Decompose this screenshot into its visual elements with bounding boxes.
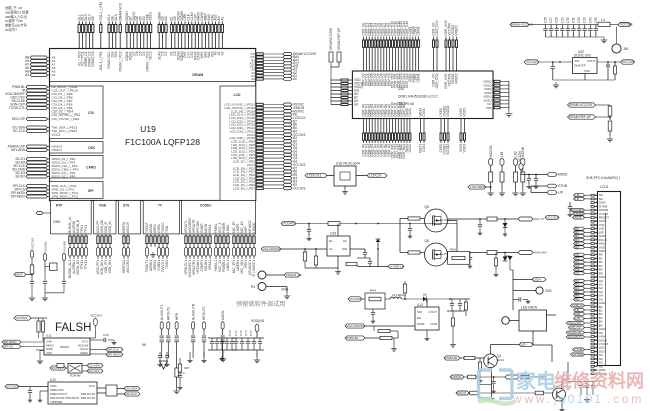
svg-text:DDR1 K4H511638J-LCCC: DDR1 K4H511638J-LCCC <box>398 95 438 99</box>
label DRAM-REF-AP <box>568 115 596 119</box>
svg-text:F1C100A LQFP128: F1C100A LQFP128 <box>125 137 200 147</box>
current sense box with R44 <box>365 293 385 309</box>
U19 right pin LCD G2 <box>256 160 263 162</box>
svg-text:DC/DC-3V3: DC/DC-3V3 <box>574 54 591 58</box>
U20 left pin 3 <box>331 86 352 88</box>
capacitor C40 at regulator input <box>552 62 554 66</box>
svg-text:HOSC1: HOSC1 <box>52 148 63 152</box>
label AUDION <box>450 375 464 379</box>
U19 left pin ADAKA-O/P <box>26 145 48 148</box>
capacitor C77 <box>166 352 168 355</box>
svg-text:PWM-BL: PWM-BL <box>347 336 359 340</box>
U19 bottom pin TVOUT <box>146 234 148 236</box>
svg-text:VDDQ2: VDDQ2 <box>446 105 450 116</box>
svg-text:WDDR#: WDDR# <box>489 145 493 157</box>
svg-text:VDD: VDD <box>545 289 552 293</box>
capacitor C64 <box>535 175 537 179</box>
label R3 to LCD1 <box>574 290 585 293</box>
svg-text:C35: C35 <box>594 17 598 23</box>
U19 right pin A3 <box>256 68 263 70</box>
buffer ground <box>344 186 346 189</box>
ground for VREF divider <box>609 136 611 139</box>
U19 right pin A11 <box>256 65 263 67</box>
U19 left pin SD-D0 <box>26 161 48 164</box>
svg-text:CODEC: CODEC <box>200 204 212 208</box>
capacitor C46 <box>369 258 371 261</box>
capacitor C29 mic3 <box>62 281 66 283</box>
ground under TV pins <box>152 252 154 255</box>
svg-text:CS#1: CS#1 <box>422 108 426 116</box>
U19 top pin stub 13 <box>133 22 135 25</box>
U19 right pin A2 <box>256 72 263 74</box>
LCD1 pin 30 <box>591 302 598 304</box>
svg-text:DDR_CK#: DDR_CK# <box>435 73 439 88</box>
svg-text:HPOUT2: HPOUT2 <box>202 306 206 320</box>
U20 bottom pin 3 <box>368 119 370 134</box>
U20 bottom pin 18 <box>420 119 422 134</box>
svg-text:OSC: OSC <box>88 146 96 150</box>
U20 top pin 19 <box>415 37 417 41</box>
capacitor C31 <box>573 25 575 29</box>
label B5 to LCD1 <box>574 246 585 249</box>
svg-text:RTP: RTP <box>56 204 63 208</box>
svg-text:GND: GND <box>281 288 289 292</box>
watermark logo blue brackets <box>479 370 513 399</box>
LCD1 pin 26 <box>591 287 598 289</box>
IC U13 backlight driver <box>415 307 439 330</box>
U20 top pin 23 <box>445 37 447 41</box>
svg-text:TVIN: TVIN <box>165 225 169 233</box>
U19 left pin TCON-CTL <box>26 107 48 110</box>
LCD1 pin 11 <box>591 231 598 233</box>
svg-text:LCD_D0_/_PE7: LCD_D0_/_PE7 <box>233 186 255 190</box>
U13 bottom ground <box>426 330 428 336</box>
svg-text:R2M 8w: R2M 8w <box>70 374 82 378</box>
svg-text:D2: D2 <box>164 51 168 55</box>
label SPI-CLK <box>90 349 106 351</box>
U19 left pin A4 <box>30 74 48 77</box>
svg-text:LCD: LCD <box>234 93 242 97</box>
diode D10 clamp down <box>503 257 508 262</box>
U19 top pin stub 8 <box>112 22 114 25</box>
svg-text:LRADC1: LRADC1 <box>252 260 256 273</box>
U20 top pin 24 <box>449 37 451 41</box>
LCD1 pin 21 <box>591 269 598 271</box>
svg-text:AV33: AV33 <box>574 216 581 220</box>
U19 right pin DRAM-VCC3VE <box>256 53 263 55</box>
svg-text:C27: C27 <box>549 17 553 23</box>
test point Rx <box>258 283 266 291</box>
svg-text:LB-: LB- <box>575 197 580 201</box>
resistor R65 <box>487 251 497 255</box>
LCD1 pin 27 <box>591 291 598 293</box>
label MODE <box>573 212 585 215</box>
LCD1 pin 28 <box>591 295 598 297</box>
U19 top pin stub 4 <box>88 22 90 25</box>
U19 right pin BA1 <box>256 59 263 61</box>
svg-text:VSS: VSS <box>584 69 590 73</box>
svg-text:www.: www. <box>512 392 553 406</box>
capacitor C30 <box>567 25 569 29</box>
svg-text:参数写use节号: 参数写use节号 <box>5 23 28 28</box>
svg-text:DRAM: DRAM <box>192 73 203 77</box>
U19 right pin LCD G5 <box>256 150 263 152</box>
U19 top pin stub 34 <box>211 22 213 25</box>
U19 bottom pin VRES <box>154 234 156 236</box>
U19 sub-block CARD <box>50 156 104 179</box>
Q6 drain output row VGH <box>448 252 487 254</box>
U19 left pin VGA-ON/OFF <box>26 93 48 96</box>
U20 bottom pin 22 <box>447 119 449 134</box>
label R4 to LCD1 <box>574 294 585 297</box>
svg-text:VCC3V3: VCC3V3 <box>16 316 28 320</box>
svg-text:I2C-CLK: I2C-CLK <box>13 129 26 133</box>
U13 output caps <box>449 298 451 300</box>
svg-text:SHE-PFC 6.5cNDRC( ): SHE-PFC 6.5cNDRC( ) <box>586 176 620 180</box>
label HOCM3 <box>571 209 585 212</box>
U19 top pin stub 2 <box>82 22 84 25</box>
U20 top pin 22 <box>436 37 438 41</box>
LCD1 pin 36 <box>591 324 598 326</box>
U19 top pin stub 15 <box>140 22 142 25</box>
svg-text:D15: D15 <box>114 51 118 57</box>
svg-text:SPI-MOSI: SPI-MOSI <box>108 353 121 357</box>
U20 bottom pin 8 <box>383 119 385 134</box>
svg-text:CSI: CSI <box>88 111 94 115</box>
U19 sub-block CSI <box>50 86 104 139</box>
U20 top pin 26 <box>456 37 458 41</box>
LCD1 pin 44 <box>591 354 598 356</box>
IC U12 touch controller <box>48 382 97 404</box>
svg-text:VREF2: VREF2 <box>455 73 459 84</box>
svg-text:VGH+16V: VGH+16V <box>534 251 547 255</box>
U19 right pin A0 <box>256 78 263 80</box>
svg-text:C26: C26 <box>544 17 548 23</box>
resistor R62 <box>346 262 357 265</box>
transistor Q1 <box>484 354 498 368</box>
svg-text:so操作 T3m: so操作 T3m <box>5 18 23 23</box>
label L/R <box>531 192 547 194</box>
U19 sub-block RTP <box>51 201 92 234</box>
capacitor near LB <box>569 202 571 206</box>
U19 bottom pin LRADC <box>253 234 255 236</box>
LCD1 pin 9 <box>591 224 598 226</box>
svg-text:VCC2V8: VCC2V8 <box>622 60 635 64</box>
U19 sub-block OSC <box>50 142 104 154</box>
resistor R45 <box>460 357 464 359</box>
svg-text:LCD-KEP#: LCD-KEP# <box>470 185 485 189</box>
U19 top pin stub 18 <box>150 22 152 25</box>
connector LCD1 body <box>598 192 621 366</box>
svg-text:C29: C29 <box>560 17 564 23</box>
U19 top pin stub 20 <box>162 22 164 25</box>
resistor R49 <box>535 391 543 395</box>
LCD1 pin 48 <box>591 369 598 371</box>
svg-text:D15: D15 <box>114 14 118 20</box>
svg-text:VGB_IN: VGB_IN <box>108 221 112 233</box>
label VGL-7V <box>568 326 584 329</box>
LCD1 pin 38 <box>591 332 598 334</box>
svg-text:VCC3: VCC3 <box>52 133 61 137</box>
svg-text:C32: C32 <box>577 17 581 23</box>
U19 bottom pin HPOUTL <box>185 234 187 236</box>
U19 bottom pin AUXRNI <box>73 234 75 236</box>
inductor L4 <box>598 22 610 26</box>
svg-text:GND: GND <box>53 220 61 224</box>
label R5 to LCD1 <box>574 298 585 301</box>
U19 top pin stub 30 <box>198 22 200 25</box>
U20 bottom pin 11 <box>392 119 394 134</box>
resistor R27 VREF divider bottom <box>608 121 612 131</box>
svg-text:GND: GND <box>430 322 438 326</box>
U20 top pin 8 <box>383 37 385 41</box>
wide label VCC3V3 <box>545 216 559 220</box>
svg-text:25Q64: 25Q64 <box>60 345 69 349</box>
svg-text:LCD1: LCD1 <box>600 185 609 189</box>
U20 bottom pin 20 <box>440 119 442 134</box>
label SHTMB <box>571 353 585 356</box>
U19 bottom pin TPX1 <box>81 234 83 236</box>
svg-text:I2C-KDA: I2C-KDA <box>89 364 100 368</box>
svg-text:PBLOUT#: PBLOUT# <box>81 396 95 400</box>
U19 right pin LCD VCC3V3 <box>256 133 263 135</box>
U20 top pin 11 <box>392 37 394 41</box>
U20 right pin 3 <box>494 88 500 90</box>
U19 top pin stub 37 <box>221 22 223 25</box>
label LCDCLK out <box>356 175 367 177</box>
U19 bottom pin AVCCR <box>127 234 129 236</box>
LCD1 pin 23 <box>591 276 598 278</box>
label LB+ <box>574 194 585 197</box>
capacitor C66 <box>409 224 411 229</box>
svg-text:UDM1: UDM1 <box>417 26 421 35</box>
U20 bottom pin 5 <box>374 119 376 134</box>
label G5 to LCD1 <box>574 272 585 275</box>
svg-text:AUXINR: AUXINR <box>63 241 67 252</box>
U19 left pin PA-CLKE <box>26 100 48 103</box>
U19 left pin I2C-CLK <box>26 130 48 133</box>
U19 top pin stub 25 <box>181 22 183 25</box>
svg-text:DRAM-VCC3VE: DRAM-VCC3VE <box>511 23 533 27</box>
U19 top pin stub 14 <box>136 22 138 25</box>
U19 top pin stub 35 <box>215 22 217 25</box>
U20 left pin 7 <box>331 100 352 102</box>
svg-text:FALSH: FALSH <box>55 322 91 334</box>
svg-text:xGA-ON/OFF: xGA-ON/OFF <box>263 247 281 251</box>
label LB- <box>574 197 585 200</box>
U19 right pin LCD VCC3V3 <box>256 187 263 189</box>
capacitor C76 <box>159 352 161 355</box>
label G0 to LCD1 <box>574 253 585 256</box>
label VCC3V3 i2c <box>50 366 66 370</box>
Q5 gate resistor <box>408 217 420 220</box>
capacitor C52 <box>247 338 249 341</box>
U19 bottom pin BLROK_AL <box>69 234 71 236</box>
U19 top pin stub 21 <box>165 22 167 25</box>
capacitor C51 <box>241 338 243 341</box>
decoupling cap bank C26-C35 top bus <box>529 24 598 26</box>
capacitor C72 audio <box>493 377 495 381</box>
U20 bottom pin 6 <box>377 119 379 134</box>
svg-text:CAS#: CAS# <box>408 144 412 153</box>
svg-text:.com: .com <box>607 392 644 406</box>
svg-text:EN: EN <box>417 316 421 320</box>
U19 top pin stub 9 <box>115 22 117 25</box>
U20 bottom pin 17 <box>409 119 411 134</box>
svg-text:A4: A4 <box>52 73 56 77</box>
svg-text:VIN: VIN <box>574 59 579 63</box>
svg-text:VCC5V: VCC5V <box>518 150 522 162</box>
U19 right pin LCD B3 <box>256 137 263 139</box>
resistor 4R7 <box>178 364 181 372</box>
U20 right pin 7 <box>494 103 500 105</box>
U19 bottom pin VGB_IP <box>105 234 107 236</box>
U20 bottom pin 16 <box>406 119 408 134</box>
svg-text:D6: D6 <box>423 293 427 297</box>
label HOSE <box>547 173 557 177</box>
U20 top pin 2 <box>365 37 367 41</box>
LCD1 pin 35 <box>591 321 598 323</box>
label I2C-KDA <box>82 365 87 367</box>
caps cluster C80-C82 near connector bottom <box>568 381 597 383</box>
svg-text:VCC: VCC <box>88 384 95 388</box>
U20 bottom pin 13 <box>397 119 399 134</box>
U20 left pin 5 <box>331 93 352 95</box>
U19 top pin stub 33 <box>208 22 210 25</box>
IC LED-H9CN driver <box>519 310 547 331</box>
svg-text:DRAM-VCC: DRAM-VCC <box>118 2 122 20</box>
svg-text:CAS#: CAS# <box>408 108 412 117</box>
label B0 to LCD1 <box>574 227 585 230</box>
svg-text:B5: B5 <box>575 245 579 249</box>
LED driver output wires <box>532 331 534 345</box>
U19 right pin LCD VSYNC <box>256 103 263 105</box>
svg-text:LCDCLK1: LCDCLK1 <box>307 174 322 178</box>
label HCCMCTL <box>566 335 584 338</box>
svg-text:AUXINL: AUXINL <box>44 241 48 252</box>
resistor R25 at output <box>614 62 616 66</box>
U19 bottom pin MIC_1N <box>241 234 243 236</box>
U19 bottom pin VRP <box>245 234 247 236</box>
svg-text:SPI0_MISO_/_PC3: SPI0_MISO_/_PC3 <box>52 195 79 199</box>
svg-text:J45: J45 <box>623 47 628 51</box>
feedback resistor divider <box>451 318 454 326</box>
U20 top pin 14 <box>400 37 402 41</box>
label GTHB <box>531 185 547 187</box>
svg-text:UDM1: UDM1 <box>417 73 421 82</box>
svg-text:VGL-7V: VGL-7V <box>570 326 581 330</box>
U19 left pin SD-CLK <box>26 165 48 168</box>
svg-text:SPI-CLK: SPI-CLK <box>108 348 119 352</box>
svg-text:OSL1_/_PE1: OSL1_/_PE1 <box>99 1 103 20</box>
svg-text:VREF2: VREF2 <box>455 25 459 36</box>
svg-text:C73: C73 <box>244 330 248 336</box>
capacitor C32 <box>578 25 580 29</box>
svg-text:PWM: PWM <box>417 322 425 326</box>
LCD1 pin 13 <box>591 239 598 241</box>
U19 left pin A6 <box>30 70 48 73</box>
label B4 to LCD1 <box>574 242 585 245</box>
svg-text:LED-H9CN: LED-H9CN <box>521 306 538 310</box>
capacitor C45 <box>364 249 366 252</box>
svg-text:I2C-CLK: I2C-CLK <box>89 369 100 373</box>
label G3 to LCD1 <box>574 264 585 267</box>
svg-text:LINEL1: LINEL1 <box>226 260 230 271</box>
svg-text:STS: STS <box>123 204 129 208</box>
capacitor C41 at regulator output <box>607 62 609 65</box>
LCD1 pin 39 <box>591 336 598 338</box>
U19 sub-block VGB <box>94 201 116 234</box>
resistor R26 VREF divider top <box>609 105 611 106</box>
LCD1 pin 17 <box>591 254 598 256</box>
U20 top pin 18 <box>412 37 414 41</box>
svg-text:VOUT: VOUT <box>429 310 438 314</box>
test point Tx <box>258 271 266 279</box>
U19 top pin stub 16 <box>143 22 145 25</box>
LCD1 pin 12 <box>591 235 598 237</box>
label GTHB <box>573 348 585 351</box>
U19 right pin A1 <box>256 75 263 77</box>
label B1 to LCD1 <box>574 231 585 234</box>
U20 top pin 16 <box>406 37 408 41</box>
U20 right pin 4 <box>494 92 500 94</box>
svg-text:R44: R44 <box>370 289 376 293</box>
U19 bottom pin CVBS <box>158 234 160 236</box>
capacitor C18 <box>90 339 104 341</box>
LCD1 pin 47 <box>591 365 598 367</box>
capacitor C28 <box>556 25 558 29</box>
svg-text:VGB_IN1: VGB_IN1 <box>108 260 112 274</box>
U19 right pin LCD G3 <box>256 157 263 159</box>
LCD1 pin 34 <box>591 317 598 319</box>
U20 bottom pin 24 <box>464 119 466 134</box>
svg-text:R5: R5 <box>575 297 579 301</box>
U20 bottom pin 4 <box>371 119 373 134</box>
label AV33 <box>573 216 585 219</box>
svg-text:VCC3V3: VCC3V3 <box>547 216 559 220</box>
svg-text:预留做软件调试用: 预留做软件调试用 <box>236 300 286 308</box>
label B3 to LCD1 <box>574 238 585 241</box>
U19 sub-block CODEC <box>181 201 255 234</box>
U20 top pin 10 <box>389 37 391 41</box>
svg-text:LED-: LED- <box>521 343 527 347</box>
U19 left pin SD-D2 <box>26 175 48 178</box>
U19 internal divider DRAM band <box>50 81 256 83</box>
label I2C-CLK right <box>117 393 124 395</box>
label VGL-7V <box>518 217 533 221</box>
U19 top pin stub 22 <box>171 22 173 25</box>
U20 left pin 8 <box>331 104 352 106</box>
U19 top pin stub 19 <box>158 22 160 25</box>
ground under U15 <box>337 256 339 269</box>
label TXD H1_A2 <box>284 273 300 277</box>
resistor pack right of U12 <box>106 385 117 396</box>
LCD1 pin 19 <box>591 261 598 263</box>
svg-text:I2C-CLK: I2C-CLK <box>126 392 138 396</box>
capacitor C34 <box>589 25 591 29</box>
U19 right pin LCD DE <box>256 113 263 115</box>
IC U20 DDR SDRAM body <box>352 71 493 119</box>
diode D6 <box>423 296 426 301</box>
svg-text:SEG-O/P: SEG-O/P <box>12 117 25 121</box>
U19 right pin LCD B6 <box>256 123 263 125</box>
Q6 gate resistor <box>408 251 420 254</box>
label PWM-BL to Q1 <box>444 356 460 360</box>
audio cluster caps right <box>208 337 237 339</box>
svg-text:AUXOUTR: AUXOUTR <box>191 303 195 320</box>
label x+VDD-LN <box>388 264 404 268</box>
mic chains ground bus <box>45 292 64 294</box>
